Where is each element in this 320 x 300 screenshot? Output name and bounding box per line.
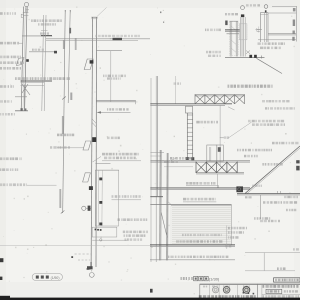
dim line D1	[63, 10, 65, 213]
hook note leader	[218, 185, 220, 188]
left label y169	[0, 168, 18, 171]
far text col rows	[228, 227, 247, 230]
rail2 label leader	[170, 158, 176, 161]
rail2 bottom chord	[196, 172, 244, 174]
tarp label row	[196, 121, 218, 124]
detail C top dim h1	[272, 6, 297, 8]
title line mid	[262, 293, 300, 295]
hook note underline	[186, 184, 218, 186]
dim D1 leader y147 line	[57, 147, 84, 149]
hoist line x220	[219, 105, 221, 165]
detail A X-brace 2	[22, 84, 28, 93]
detail A note above shelf	[40, 32, 49, 34]
railing2 X-panels	[196, 162, 237, 173]
equip box 1 inner	[208, 147, 210, 161]
hanger rod x110.8	[110, 51, 112, 102]
left label y114	[0, 113, 15, 116]
stamp header marks	[203, 286, 207, 288]
caption left oval	[32, 274, 62, 281]
right dim rotated t2	[293, 20, 295, 27]
blueprint box	[266, 289, 282, 293]
mid labels rowC	[208, 55, 221, 57]
detail A shelf y81	[21, 80, 53, 82]
equip box 2 marks	[218, 147, 221, 152]
bottom corner blob	[0, 296, 10, 300]
far right tilde	[293, 248, 299, 250]
bracket B3	[83, 173, 91, 182]
crane diagonal b	[247, 148, 300, 194]
hoist tick text	[224, 136, 229, 138]
roof diag tick	[228, 107, 235, 110]
crane label box	[262, 163, 283, 166]
post bolt tick	[265, 10, 267, 12]
mid labels rowB	[206, 51, 221, 54]
rail2 drop leader	[217, 174, 219, 188]
detail C frame hatch	[231, 26, 237, 31]
detail A shelf y81 lower	[21, 81, 45, 83]
rtext y197	[284, 196, 298, 198]
crane beam ticks	[277, 191, 279, 194]
bolt detail circle	[82, 206, 86, 210]
wall stud pair2	[166, 153, 168, 260]
detail C frame v1	[229, 21, 231, 57]
rail2 label row2	[164, 161, 178, 163]
detail A leader y52 line	[29, 51, 54, 53]
far text y246	[225, 245, 231, 247]
crane leader text	[252, 185, 262, 187]
detail A line y85.5	[21, 85, 45, 87]
floor line dbl	[150, 187, 250, 189]
title small right	[284, 290, 298, 292]
detail A base line	[15, 110, 28, 112]
right text y150	[237, 149, 272, 152]
bottom section bubble	[89, 273, 94, 278]
caption underline	[102, 160, 141, 162]
equip box 1	[207, 145, 217, 161]
titleblock top line	[200, 283, 300, 285]
tarp label row3	[252, 123, 285, 126]
floor line y39 lower	[46, 39, 138, 41]
right text y143	[272, 142, 299, 145]
rail note underline	[183, 201, 216, 203]
center cross mark	[256, 29, 263, 31]
anchor rod v4	[244, 17, 246, 56]
titleblock left blob	[150, 289, 153, 293]
mullion note y75 row1	[103, 75, 126, 78]
dim D2 rotated text	[69, 28, 71, 34]
mid labels rowA	[205, 29, 221, 32]
detail A top tick	[26, 9, 29, 11]
titleblock v3	[218, 284, 220, 297]
ladder feet	[186, 157, 189, 160]
detail C top dim h2	[268, 12, 296, 14]
detail C frame cap	[230, 20, 239, 22]
big panel striations	[172, 208, 231, 244]
crane col	[260, 195, 262, 219]
note y220 text	[118, 218, 148, 221]
detail C right dim line	[295, 6, 297, 42]
crane diagonal a	[245, 146, 300, 193]
mullion B left flange	[91, 17, 93, 267]
panel fastener 1	[99, 178, 102, 181]
bead black 2	[254, 55, 257, 58]
stamp 1	[213, 287, 219, 293]
post bolt circle	[264, 5, 268, 9]
caption mid text	[181, 277, 194, 280]
dim D1 leader y147	[50, 146, 70, 149]
detail A mullion web	[23, 8, 25, 110]
floor note faint	[95, 35, 140, 37]
ladder rungs	[187, 115, 192, 158]
post box left	[259, 13, 261, 43]
elev note y101	[262, 100, 290, 102]
company name row	[199, 295, 256, 298]
beam end tick	[135, 100, 137, 104]
crane shackle	[236, 186, 243, 192]
left label y158	[0, 157, 22, 160]
detail C bottom line	[258, 39, 296, 41]
crane small marks	[245, 196, 252, 198]
lower box line y240	[92, 239, 127, 241]
mullion base dashes 2	[78, 259, 90, 261]
anchor rod v3	[243, 17, 245, 56]
detail C note row2	[260, 47, 281, 50]
hoist tick	[220, 137, 224, 139]
title dots	[243, 292, 245, 294]
far text bracket	[226, 226, 228, 250]
col line x175	[174, 76, 176, 104]
big panel top	[150, 204, 231, 206]
basement line	[150, 259, 235, 261]
caption leader diag	[93, 157, 101, 163]
detail A2 inner line	[44, 15, 46, 111]
lower note row2	[124, 234, 146, 237]
anchor rod v1	[240, 17, 242, 56]
note y197 underline	[112, 199, 142, 201]
wall brace diag	[161, 213, 167, 238]
left label y101	[0, 100, 12, 103]
leader X mark	[246, 51, 250, 54]
mullion B top leader	[97, 8, 106, 17]
lower box top dots	[95, 229, 97, 231]
sill line y50.7	[97, 50, 123, 52]
wall top seg marks	[150, 152, 164, 154]
truss1 X-panels	[195, 94, 245, 104]
detail C left label row	[225, 13, 238, 15]
detail A long note row 1	[31, 19, 62, 22]
bead tick	[261, 56, 263, 59]
ladder top box	[186, 106, 193, 113]
grid line left	[155, 76, 157, 262]
detail A bracket dot	[26, 59, 29, 62]
detail A shelf line y36	[22, 35, 52, 37]
GL line faint left	[0, 245, 150, 247]
title row1	[263, 285, 299, 288]
stray speck 2	[163, 22, 164, 23]
post inner v2	[265, 13, 267, 43]
stamp 3	[243, 287, 250, 294]
detail C note row1	[258, 42, 286, 45]
detail A2 outer line	[42, 15, 44, 111]
right dim rotated t1	[293, 8, 296, 11]
sheet grid line x151	[150, 78, 152, 262]
spandrel panel outline	[95, 170, 118, 226]
beam lines y101	[97, 99, 136, 101]
lower box outline	[92, 227, 117, 237]
rail2 top chord	[150, 160, 250, 162]
panel fastener 3	[99, 223, 102, 226]
arrow note text	[107, 108, 129, 110]
drip diagonal	[257, 58, 283, 73]
right dim rotated t3	[293, 31, 295, 34]
dim D1 tick y98	[62, 97, 66, 100]
detail A leader y43 line	[19, 42, 23, 44]
rail2 label underline	[164, 166, 193, 168]
lower note row1	[123, 231, 148, 234]
titleblock v2	[209, 284, 211, 297]
detail C frame v4	[237, 21, 239, 57]
left edge mark 1	[0, 258, 3, 262]
floor line dark segment	[113, 38, 123, 40]
panel inner line 2	[101, 170, 103, 226]
detail A post x24.5	[24, 85, 26, 111]
detail C frame dashed	[229, 22, 238, 56]
rtext y203	[263, 201, 297, 204]
dim D1 text block y134	[57, 134, 74, 137]
titleblock v6	[261, 284, 263, 298]
big panel sides	[231, 205, 233, 245]
detail A bracket gusset	[17, 58, 25, 66]
detail C caption	[228, 85, 273, 88]
caption mid boxes	[194, 276, 198, 280]
detail A long note row 2	[38, 23, 56, 25]
mullion B right flange	[95, 17, 98, 267]
titleblock v1	[199, 284, 201, 297]
detail A long note row y78	[15, 77, 70, 80]
mullion hatch ticks	[92, 119, 96, 124]
bead black 1	[249, 55, 252, 58]
panel top lines	[95, 163, 110, 165]
wall mid note row	[182, 234, 222, 236]
mullion hook	[86, 262, 91, 269]
rail2 label box	[170, 157, 193, 160]
bracket B1	[84, 59, 93, 70]
detail A left label y62	[0, 61, 24, 64]
detail A2 cross tick	[41, 30, 48, 32]
detail A leader y52 dot	[54, 51, 57, 54]
detail A leader y43 text	[0, 42, 19, 45]
detail A leader y52 small text	[32, 49, 44, 51]
dim D1 rotated text b	[62, 116, 64, 134]
post box right	[267, 13, 269, 43]
rtext y210	[286, 209, 296, 211]
chevron ticks	[256, 29, 260, 30]
bottom scan bar	[0, 298, 300, 300]
glass stop black	[92, 137, 96, 142]
detail A mullion outer line	[21, 7, 23, 112]
lower col right	[263, 253, 265, 271]
post inner v1	[263, 13, 265, 43]
detail A label row top-left	[0, 12, 16, 15]
tarp label row2	[248, 120, 284, 123]
rtext y219	[254, 217, 270, 220]
tarp leader diag	[228, 122, 252, 138]
basement note row	[168, 256, 228, 258]
detail A X-brace 1	[22, 84, 30, 95]
dim line D2	[68, 10, 70, 103]
panel fastener 2	[99, 201, 102, 204]
mullion base dashes	[75, 253, 92, 255]
anchor bolt circle	[241, 6, 245, 10]
mullion B top cap	[91, 16, 97, 18]
ladder rail R	[192, 113, 194, 159]
lower line right	[245, 270, 295, 272]
floor line y39 upper	[46, 38, 150, 40]
title row bottom	[263, 295, 300, 298]
bolt detail stem	[86, 207, 91, 209]
anchor bolt label	[246, 4, 260, 6]
anchor bolt cap	[241, 14, 244, 17]
stray speck 1	[160, 12, 161, 14]
GL note row	[176, 240, 222, 243]
dim D1 rotated text c	[59, 189, 61, 208]
detail A left label y68	[0, 67, 21, 70]
detail C left dark smudge	[225, 21, 227, 26]
arrow line y112	[98, 111, 131, 113]
dim D1 rotated text a	[63, 40, 65, 49]
titleblock v4	[236, 284, 238, 297]
dim D1 end tick	[61, 211, 65, 214]
detail A shelf dark seg	[41, 35, 52, 37]
glass note	[107, 137, 120, 140]
detail A left label y56	[0, 56, 21, 59]
detail C mid dim dbl	[268, 33, 296, 35]
dim D1 arrowhead	[65, 10, 66, 13]
GL line strong	[150, 244, 235, 246]
detail C dark band1	[225, 29, 240, 31]
lower box circle	[100, 239, 102, 241]
wall line left upper	[157, 76, 159, 196]
bracket B1 black fitting	[90, 60, 94, 63]
detail C frame v2	[231, 21, 233, 57]
lower box right	[277, 267, 286, 270]
panel inner line 1	[97, 170, 99, 226]
anchor rod v2	[241, 17, 243, 56]
rail note row	[183, 198, 216, 201]
elev note y108	[265, 107, 295, 109]
dim rotated text right	[70, 93, 72, 101]
detail A foot marks	[21, 108, 23, 110]
detail A top caps	[23, 12, 29, 14]
ladder rail L	[186, 113, 188, 159]
right dim rotated t4	[292, 37, 294, 41]
wall stud pair1	[159, 150, 161, 260]
caption row1	[102, 153, 139, 156]
caption row2	[104, 157, 136, 160]
lower note row3	[125, 238, 143, 241]
titleblock v5	[257, 284, 259, 298]
detail A mullion inner line	[25, 7, 27, 112]
anchor sleeve dashed	[239, 24, 247, 40]
stamp 2	[223, 287, 230, 294]
col ticks x175	[174, 82, 182, 84]
left label y86	[0, 85, 14, 88]
left leader y185	[27, 184, 57, 186]
caption left boxes	[36, 276, 60, 281]
truss1 top chord	[195, 94, 245, 96]
detail C frame v3	[235, 21, 237, 57]
right text y156	[244, 155, 258, 158]
post caps	[260, 12, 268, 14]
roof line dbl	[150, 103, 232, 105]
equip box 2	[217, 145, 224, 161]
dim right rotated smudge	[75, 38, 77, 50]
mullion blob y188	[89, 186, 93, 190]
detail C dark band2	[227, 33, 240, 35]
left edge mark 2	[0, 277, 2, 280]
caption right box	[274, 278, 300, 282]
left label y184	[0, 183, 27, 186]
crane beam dbl	[237, 193, 300, 195]
note y197 text	[112, 195, 141, 198]
bolt detail nut	[88, 206, 91, 211]
rtext y221	[260, 220, 280, 222]
mullion hook mass	[87, 266, 93, 269]
sill line C	[225, 57, 265, 59]
mullion note y75 row2	[107, 77, 121, 79]
dim D2 arrowhead	[70, 10, 71, 13]
hook note row	[186, 182, 216, 185]
detail A section bubble	[24, 2, 28, 6]
wall top dark	[150, 196, 163, 198]
lower GL right	[245, 252, 300, 254]
detail A line y96.8	[15, 96, 27, 98]
bracket B2	[83, 141, 91, 150]
mullion base dash speck	[71, 256, 73, 258]
right edge glyphs	[296, 160, 299, 163]
